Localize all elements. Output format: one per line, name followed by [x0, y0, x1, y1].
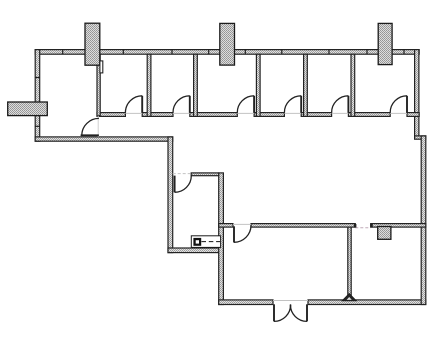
wall corridor segment 6	[348, 113, 390, 117]
electrical panel box	[191, 236, 220, 248]
mullion tick left 1	[35, 77, 40, 79]
double door left swing	[274, 305, 291, 322]
column top 3	[378, 23, 392, 64]
column bottom-right	[378, 227, 391, 240]
threshold double door	[273, 300, 308, 302]
door room4 swing	[284, 96, 301, 113]
door room1 leaf	[141, 96, 143, 113]
wall corridor segment 5	[301, 113, 331, 117]
threshold corridor door 6	[390, 112, 407, 114]
door middle room swing	[234, 225, 251, 242]
mullion tick left 2	[35, 125, 40, 127]
riser triangle	[342, 294, 356, 301]
mullion tick top 3	[171, 49, 173, 54]
threshold corridor door 3	[237, 112, 254, 114]
jamb cap cased opening right	[370, 224, 373, 228]
wall right upper	[415, 50, 419, 138]
wall fixture upper-left	[100, 61, 103, 73]
wall corridor segment 7	[407, 113, 419, 117]
wall middle horizontal segment 3	[371, 224, 426, 228]
column top 2	[220, 23, 235, 65]
door room5 leaf	[347, 96, 349, 113]
wall small-room bottom	[168, 248, 223, 253]
mullion tick top 7	[328, 49, 330, 54]
door small room leaf	[174, 176, 176, 193]
door room2 swing	[173, 96, 190, 113]
wall small-room top	[191, 173, 219, 176]
wall corridor segment 1	[97, 113, 125, 117]
wall lower-left vertical	[219, 173, 224, 305]
door room6 leaf	[406, 96, 408, 113]
wall room divider A	[147, 54, 151, 116]
mullion tick top 2	[122, 49, 124, 54]
door small room swing	[175, 176, 192, 193]
mullion tick top 4	[208, 49, 210, 54]
wall middle horizontal segment 1	[219, 224, 233, 228]
wall lower room divider	[348, 227, 351, 300]
double door left leaf	[273, 304, 275, 321]
wall room divider B	[194, 54, 198, 116]
door room6 swing	[390, 96, 407, 113]
wall bottom right segment	[308, 300, 426, 305]
wall corridor segment 4	[254, 113, 284, 117]
door upper-left room swing	[82, 118, 99, 135]
wall upper-left bottom	[35, 137, 173, 141]
column left	[8, 102, 48, 116]
mullion tick top 1	[62, 49, 64, 54]
wall room divider E	[351, 54, 355, 116]
threshold cased opening	[355, 227, 370, 229]
wall left exterior	[35, 50, 40, 142]
wall bottom left segment	[219, 300, 273, 305]
electrical panel feeder dashes	[202, 241, 221, 243]
mullion tick top 6	[281, 49, 283, 54]
wall right jog	[415, 136, 426, 139]
electrical panel breaker	[193, 238, 201, 246]
wall room divider D	[304, 54, 308, 116]
mullion tick top 5	[244, 49, 246, 54]
door room3 swing	[237, 96, 254, 113]
threshold upper-left door	[97, 116, 99, 137]
door room5 swing	[332, 96, 349, 113]
door upper-left room leaf	[81, 134, 99, 136]
wall right lower	[421, 136, 426, 305]
mullion tick top 9	[403, 49, 405, 54]
threshold corridor door 2	[173, 112, 190, 114]
threshold corridor door 5	[332, 112, 349, 114]
column top 1	[85, 23, 100, 65]
wall corridor segment 2	[142, 113, 173, 117]
door room1 swing	[125, 96, 142, 113]
double door center post	[290, 304, 292, 310]
wall middle horizontal segment 2	[251, 224, 355, 228]
door middle room leaf	[233, 226, 235, 242]
mullion tick top 8	[366, 49, 368, 54]
wall room divider C	[256, 54, 260, 116]
threshold small-room door	[173, 173, 192, 175]
wall top exterior	[35, 50, 419, 55]
double door right swing	[290, 305, 307, 322]
jamb cap cased opening left	[354, 224, 357, 228]
door room4 leaf	[300, 96, 302, 113]
wall mid-left vertical	[168, 137, 173, 253]
door room2 leaf	[189, 96, 191, 113]
threshold corridor door 4	[284, 112, 301, 114]
threshold middle door	[233, 223, 251, 225]
door room3 leaf	[253, 96, 255, 113]
wall corridor segment 3	[190, 113, 238, 117]
wall upper-left room east	[97, 54, 100, 115]
double door right leaf	[306, 304, 308, 321]
threshold corridor door 1	[125, 112, 142, 114]
